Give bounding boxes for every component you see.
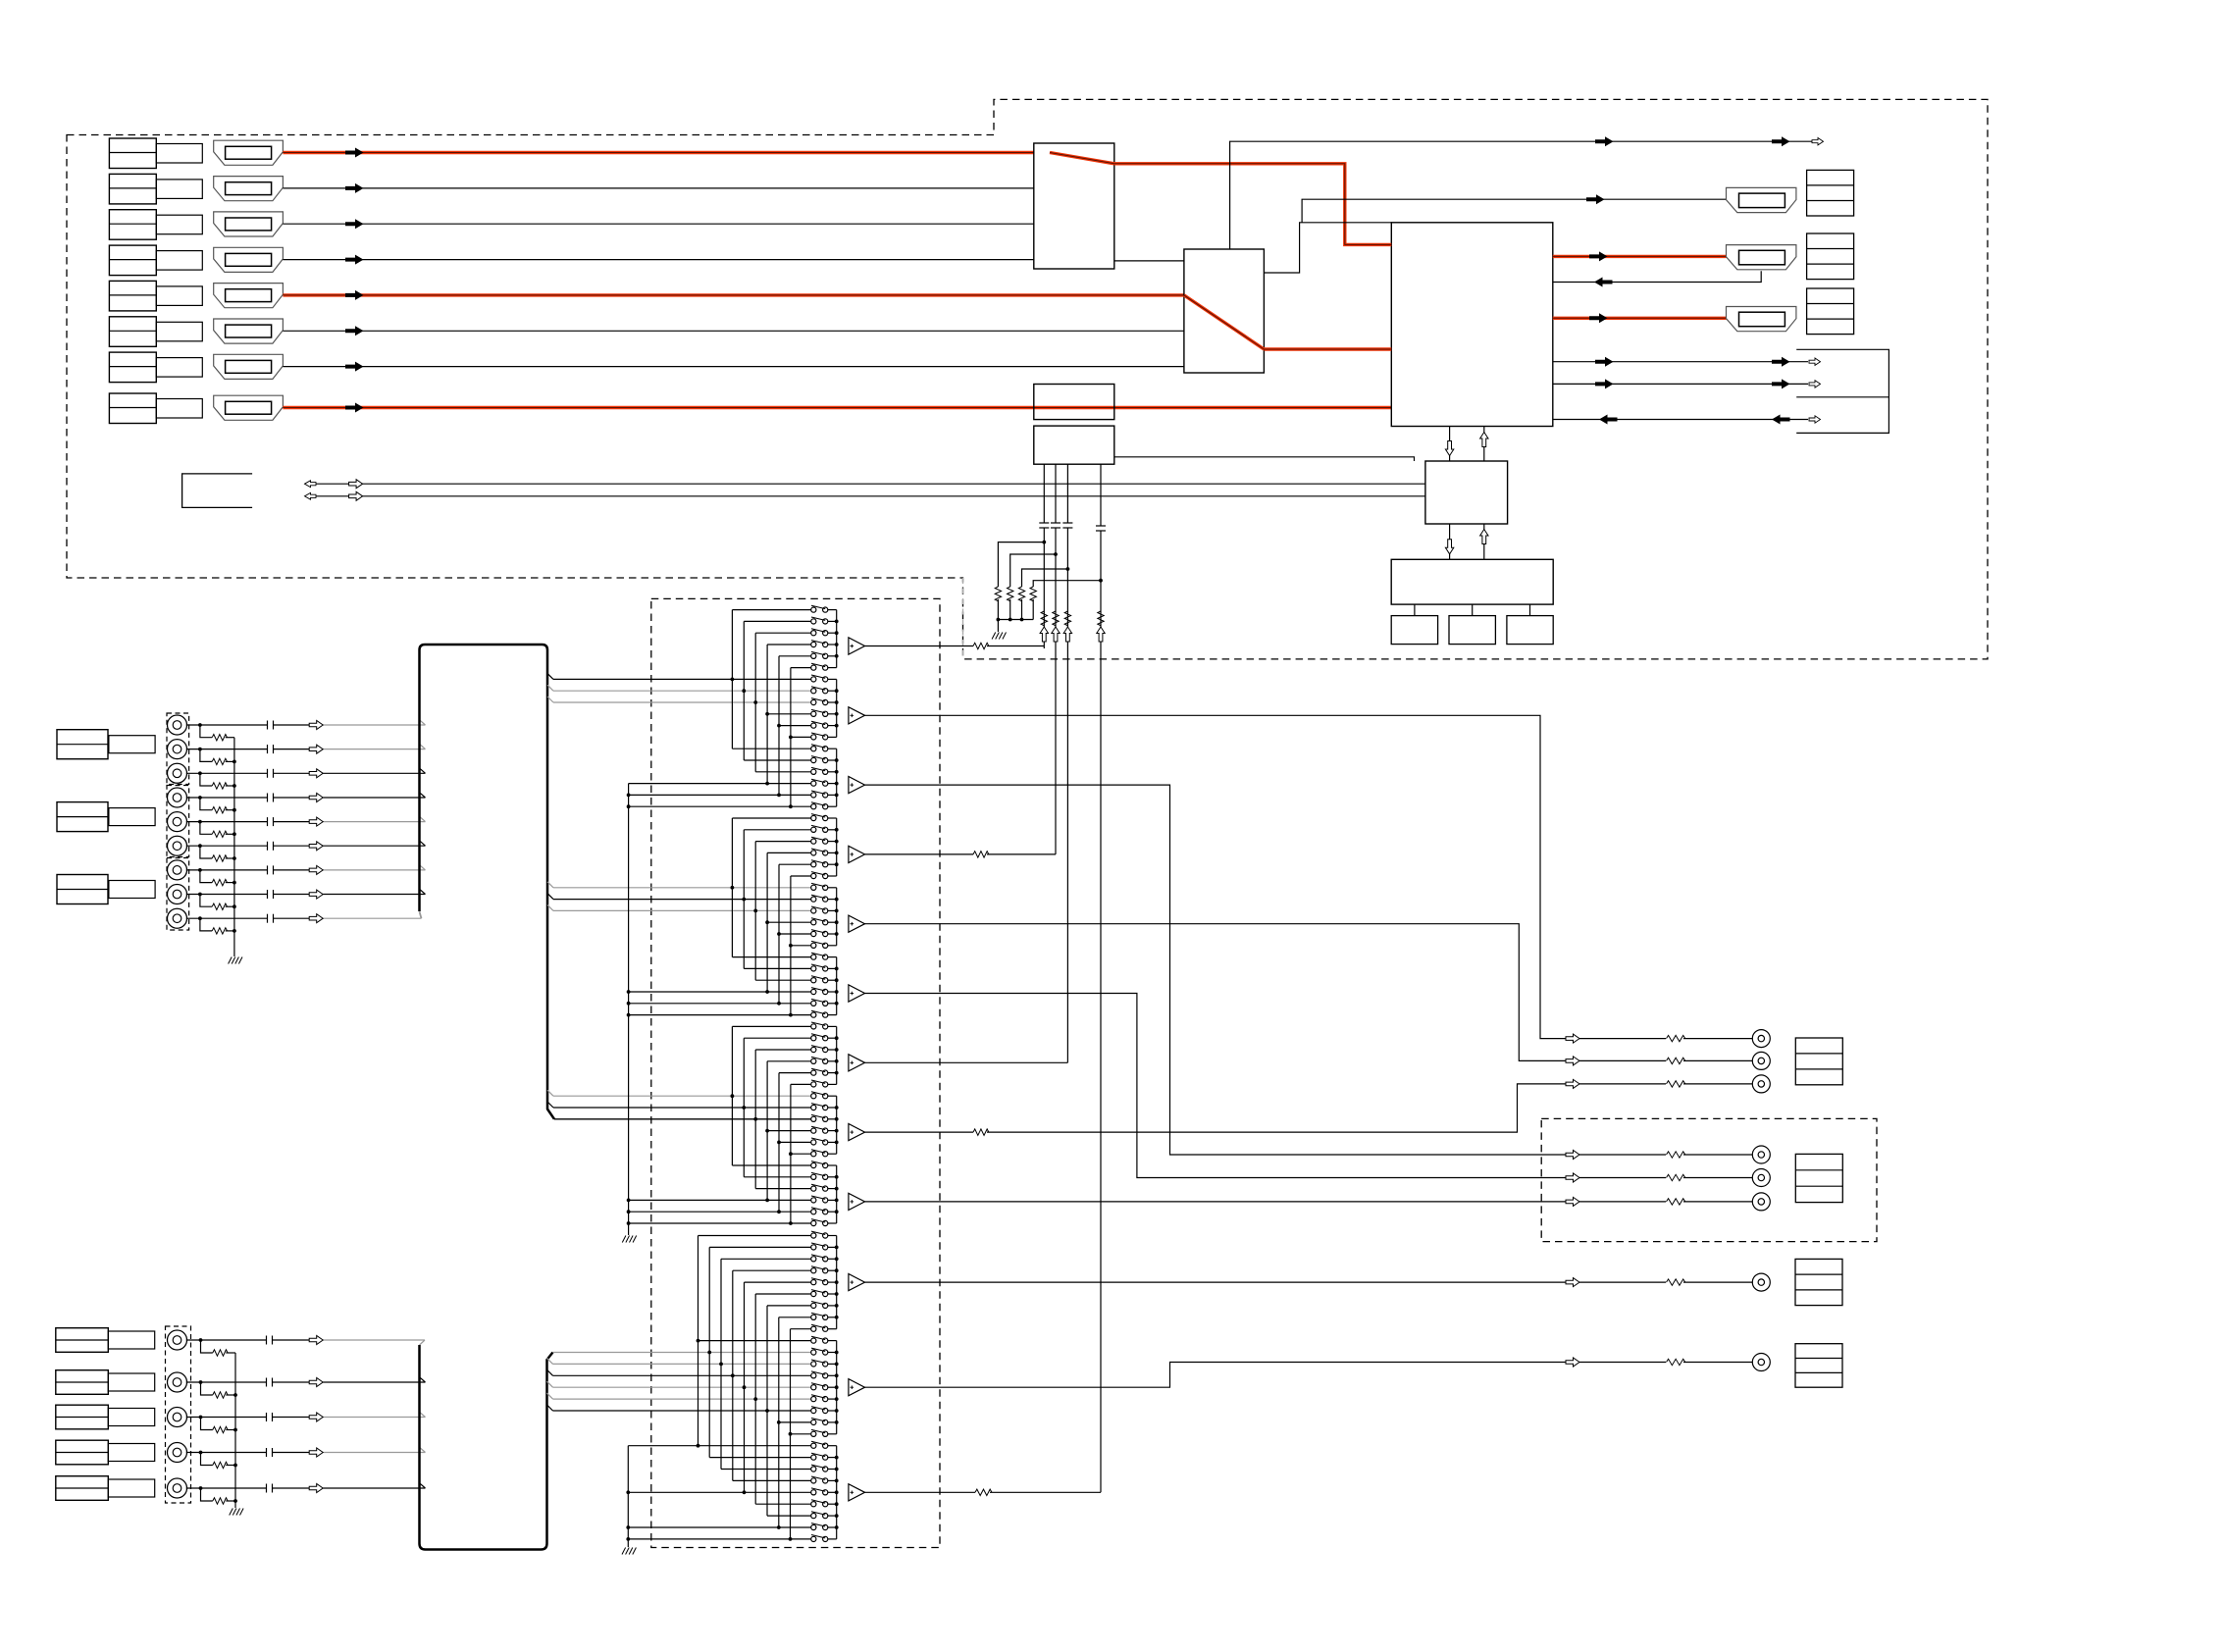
wire bank2 row10 <box>767 921 811 923</box>
memory box U10 <box>1507 616 1553 645</box>
HDMI input 5 label box <box>109 281 156 311</box>
selector bank3 bus line V5 <box>778 1073 780 1213</box>
analog input label box 10 <box>56 1328 109 1353</box>
switch SW-L9 <box>811 1326 816 1331</box>
HDMI input 1 sub label box <box>156 144 202 164</box>
wire lower row12 <box>719 1363 723 1367</box>
arrow on out-2 wire <box>1589 251 1608 261</box>
single out 1 terminal box <box>1795 1259 1842 1305</box>
switch SW-U13 <box>811 747 816 751</box>
switch SW-L19 <box>811 1443 816 1448</box>
right arrow on control bus <box>349 491 363 500</box>
HDMI input connector J5 <box>214 284 284 308</box>
series resistor on zone2 out 2 <box>1667 1174 1685 1180</box>
HDMI input 6 label box <box>109 317 156 347</box>
switch SW-L27 <box>811 1536 816 1541</box>
switch SW-U51 <box>811 1186 816 1191</box>
arrow on zone out 3 <box>1566 1079 1579 1088</box>
wire bank3 row11 <box>779 1141 811 1143</box>
wire lower row20 <box>709 1457 811 1459</box>
HDMI input connector J1 <box>214 140 284 165</box>
coupling capacitor AIN5 <box>267 817 269 826</box>
wire lower harness to matrix row L13 <box>547 1381 553 1387</box>
switch SW-U53 <box>811 1210 816 1214</box>
switch SW-L3 <box>811 1257 816 1262</box>
switch SW-U45 <box>811 1116 816 1121</box>
wire U2 top to HDMI monitor out (L-shape) <box>1230 141 1812 249</box>
RCA jack AIN14 <box>168 1478 187 1498</box>
resistor on line B <box>1053 611 1059 626</box>
wire buffer A9 to zone2 RCA out 3 <box>865 1201 1567 1203</box>
switch SW-U39 <box>811 1047 816 1052</box>
wire lower row24 <box>755 1503 811 1505</box>
lower selector bus line LV2 <box>708 1247 710 1457</box>
wire AIN11 to trunk <box>273 1381 310 1383</box>
wire bank3 row15 <box>755 1188 811 1190</box>
wire lower row11 <box>707 1351 711 1355</box>
wire lower row22 <box>733 1479 811 1481</box>
wire harness to matrix row 8 <box>547 697 553 702</box>
audio link line D from U4 <box>1100 464 1102 526</box>
RCA jack AIN8 <box>168 885 187 904</box>
zone2 out terminal box <box>1795 1154 1842 1202</box>
wire bank1 row8 <box>742 689 746 693</box>
wire harness to matrix row 24 <box>547 882 553 888</box>
memory box U8 <box>1391 616 1437 645</box>
left arrow on control bus <box>305 481 317 488</box>
wire lower row17 <box>779 1421 811 1423</box>
switch SW-L8 <box>811 1315 816 1319</box>
wire AIN13 to coupling cap <box>186 1452 267 1454</box>
coupling capacitor AIN2 <box>267 745 269 753</box>
HDMI input 4 label box <box>109 245 156 276</box>
red wire U2 to U5 <box>1264 347 1391 350</box>
up arrow on line A <box>1040 627 1048 642</box>
input trunk harness (upper) <box>425 645 554 1119</box>
wire HDMI3 signal <box>283 223 1033 225</box>
single out 2 terminal box <box>1795 1344 1842 1388</box>
switch SW-U49 <box>811 1162 816 1167</box>
dashed enclosure: multi-zone audio output group <box>1541 1118 1877 1241</box>
RCA jack AIN10 <box>168 1330 187 1350</box>
analog input label box 11 <box>56 1370 109 1395</box>
series resistor on single out 2 <box>1667 1359 1685 1365</box>
analog input label box 2 <box>57 802 108 832</box>
wire buffer AL3 to HDMI audio link D <box>865 1491 976 1493</box>
buffer amp A9 <box>849 1193 865 1210</box>
switch SW-U18 <box>811 804 816 809</box>
HDMI input 3 label box <box>109 210 156 240</box>
wire bank2 row12 <box>791 945 811 947</box>
switch SW-U28 <box>811 920 816 925</box>
coupling capacitor AIN10 <box>266 1336 268 1345</box>
wire bank2 row4 <box>767 852 811 853</box>
pull-down resistor R1 network <box>998 542 1044 587</box>
termination resistor AIN14 <box>201 1488 213 1501</box>
arrow on AIN10 wire <box>309 1336 323 1345</box>
HDMI input 2 sub label box <box>156 180 202 199</box>
analog input ground bus <box>233 738 235 956</box>
pull-down resistor R4 <box>1033 581 1101 587</box>
aux connector bracket <box>1796 349 1889 433</box>
wire bank2 row6 <box>791 875 811 877</box>
arrow on AIN2 wire <box>309 745 323 753</box>
arrows on aux wire <box>1599 415 1618 425</box>
buffer amp A7 <box>849 1055 865 1071</box>
stub U7-U9 <box>1472 604 1474 616</box>
selector bank3 bus line V3 <box>754 1050 756 1189</box>
HDMI input 6 sub label box <box>156 322 202 341</box>
switch SW-U11 <box>811 723 816 728</box>
wire bank2 row18 from ground trunk <box>629 1014 811 1016</box>
ground of selector trunk <box>622 1236 626 1243</box>
stub U7-U10 <box>1529 604 1531 616</box>
wire bank1 row4 <box>767 644 811 645</box>
lower selector bus line LV6 <box>754 1294 756 1504</box>
wire bank2 row5 <box>779 863 811 865</box>
arrow on AIN5 wire <box>309 817 323 826</box>
switch SW-U54 <box>811 1220 816 1225</box>
wire AIN4 to coupling cap <box>186 797 268 799</box>
switch SW-U3 <box>811 631 816 636</box>
control bus wire y505 <box>316 495 1425 497</box>
arrow on AIN7 wire <box>309 865 323 874</box>
resistor on line D <box>1098 611 1104 626</box>
wire bank2 row14 <box>744 967 810 969</box>
analog input sub label box 2 <box>109 808 155 826</box>
collector bus bank2 group1 <box>836 818 838 876</box>
wire single out 1 <box>1579 1281 1666 1283</box>
wire harness to matrix row 7 <box>547 685 553 691</box>
HDMI input 7 label box <box>109 352 156 383</box>
switch SW-U44 <box>811 1105 816 1110</box>
HDMI input connector J3 <box>214 212 284 236</box>
selector bank2 bus line V5 <box>778 864 780 1004</box>
lower selector bus line LV8 <box>778 1317 780 1527</box>
buffer amp AL1 <box>849 1274 865 1291</box>
termination resistor AIN3 <box>200 773 212 786</box>
arrow on HDMI1 wire <box>345 148 364 158</box>
red wire U5 to HDMI out 3 <box>1553 317 1727 320</box>
wire U1 to U2 link <box>1114 260 1184 262</box>
switch SW-U6 <box>811 665 816 670</box>
collector bus bank3 group1 <box>836 1026 838 1084</box>
switch SW-U32 <box>811 966 816 971</box>
ground of pull-down bus <box>997 620 999 633</box>
buffer amp A6 <box>849 985 865 1002</box>
main HDMI receiver box U5 <box>1391 223 1553 427</box>
wire AIN8 to coupling cap <box>186 894 268 896</box>
termination resistor AIN6 <box>200 846 212 858</box>
selector bank1 bus line V3 <box>754 633 756 772</box>
switch SW-U16 <box>811 781 816 786</box>
capacitor on line B <box>1051 522 1061 524</box>
wire lower row14 <box>743 1385 747 1389</box>
wire buffer A3 to zone2 RCA out 1 <box>865 785 1567 1155</box>
wire AIN12 to trunk <box>273 1417 310 1419</box>
switch SW-L23 <box>811 1490 816 1495</box>
wire lower row1 <box>699 1235 811 1237</box>
termination resistor AIN9 <box>200 918 212 931</box>
wire lower harness to matrix row L12 <box>547 1369 553 1375</box>
pull-down common bus <box>997 599 999 620</box>
series resistor on zone out 3 <box>1667 1081 1685 1087</box>
switch SW-L4 <box>811 1268 816 1273</box>
wire lower row3 <box>721 1258 811 1260</box>
dashed group box: analog inputs 1-3 <box>167 713 189 785</box>
arrow on AIN8 wire <box>309 890 323 899</box>
analog input label box 13 <box>56 1440 109 1465</box>
wire HDMI5 signal <box>283 293 1184 296</box>
wire buffer A8 to zone RCA out 3 <box>865 1131 974 1133</box>
wire lower row9 <box>791 1328 811 1330</box>
switch SW-U31 <box>811 955 816 959</box>
series resistor on zone2 out 1 <box>1667 1152 1685 1158</box>
arrow on AIN6 wire <box>309 842 323 851</box>
DSP box U7 <box>1391 559 1553 604</box>
wire U4 to U6 <box>1114 457 1415 461</box>
RCA output jack zone2 out 1 <box>1752 1146 1770 1163</box>
selector bank2 bus line V6 <box>790 876 792 1015</box>
HDMI input 3 sub label box <box>156 215 202 234</box>
wire lower row4 <box>733 1269 811 1271</box>
stub U7-U8 <box>1414 604 1416 616</box>
arrow on single out 2 <box>1566 1358 1579 1367</box>
HDMI input 4 sub label box <box>156 251 202 271</box>
wire bank3 row6 <box>791 1083 811 1085</box>
wire zone out 3 <box>1579 1083 1666 1085</box>
switch SW-U19 <box>811 815 816 820</box>
arrow on AIN3 wire <box>309 769 323 778</box>
wire AIN1 to trunk <box>274 724 310 726</box>
wire lower row15 <box>753 1397 757 1401</box>
arrow on AIN14 wire <box>309 1484 323 1493</box>
coupling capacitor AIN8 <box>267 890 269 899</box>
wire buffer A6 to zone2 RCA out 2 <box>865 994 1567 1178</box>
switch SW-U2 <box>811 619 816 624</box>
wire bank1 row1 <box>732 609 810 611</box>
switch SW-L5 <box>811 1280 816 1285</box>
wire AIN8 to trunk <box>274 894 310 896</box>
wire bank1 row17 from ground trunk <box>629 794 811 796</box>
bus U6-U7 down <box>1449 524 1451 559</box>
resistor on line C <box>1064 611 1070 626</box>
wire lower row26 from ground trunk 2 <box>628 1526 810 1528</box>
arrow on zone2 out 3 <box>1566 1197 1579 1206</box>
selector bank2 bus line V3 <box>754 842 756 981</box>
wire AIN9 to coupling cap <box>186 917 268 919</box>
switch SW-L24 <box>811 1502 816 1507</box>
switch SW-U34 <box>811 989 816 994</box>
wire AIN2 to trunk <box>274 749 310 750</box>
wire AIN7 to coupling cap <box>186 869 268 871</box>
wire HDMI8 signal <box>283 406 1391 409</box>
wire bank3 row8 <box>742 1106 746 1110</box>
wire bank3 row9 <box>753 1117 757 1121</box>
coupling capacitor AIN6 <box>267 842 269 851</box>
wire lower harness to matrix row L10 <box>553 1352 811 1354</box>
lower selector bus line LV3 <box>720 1259 722 1469</box>
HDMI input 5 sub label box <box>156 286 202 306</box>
red selected path inside U1 <box>1050 153 1114 164</box>
analog input label box 14 <box>56 1476 109 1501</box>
collector bus lower group1 <box>836 1236 838 1329</box>
arrow on zone out 2 <box>1566 1057 1579 1065</box>
switch SW-L7 <box>811 1303 816 1308</box>
wire bank3 row4 <box>767 1060 811 1062</box>
termination resistor AIN5 <box>200 822 212 835</box>
left arrow on control bus <box>305 492 317 499</box>
wire harness to matrix row 43 <box>547 1102 553 1108</box>
switch SW-U37 <box>811 1024 816 1029</box>
analog input label box 3 <box>57 875 108 904</box>
wire bank1 row9 <box>753 700 757 704</box>
red selected path inside U2 <box>1184 295 1265 349</box>
selector bank2 bus line V4 <box>766 852 768 992</box>
wire lower harness to matrix row L11 <box>547 1358 553 1364</box>
arrow on HDMI8 wire <box>345 403 364 413</box>
HDMI repeater box U3 on input-8 line <box>1034 385 1114 420</box>
switch SW-U22 <box>811 851 816 855</box>
RCA output jack single out 2 <box>1752 1354 1770 1371</box>
lower selector bus line LV4 <box>732 1270 734 1480</box>
wire bank1 row3 <box>755 632 811 634</box>
switch SW-L15 <box>811 1397 816 1402</box>
buffer amp A3 <box>849 777 865 794</box>
wire bank3 row13 <box>732 1164 810 1166</box>
wire U5 aux port y427 <box>1553 419 1808 421</box>
capacitor on line A <box>1039 522 1049 524</box>
HDMI input 7 sub label box <box>156 358 202 378</box>
wire lower row23 from ground trunk 2 <box>628 1491 810 1493</box>
switch SW-L11 <box>811 1350 816 1355</box>
wire lower harness to matrix row L15 <box>547 1405 553 1411</box>
aux bracket mid line <box>1796 396 1889 398</box>
wire zone out 2 <box>1579 1059 1666 1061</box>
selector bank1 bus line V2 <box>743 621 745 760</box>
audio link line A from U4 <box>1043 464 1045 523</box>
wire buffer A7 to HDMI audio link C <box>865 1061 1068 1063</box>
audio return box U4 <box>1034 426 1114 464</box>
RCA jack AIN13 <box>168 1443 187 1463</box>
RCA output jack single out 1 <box>1752 1273 1770 1291</box>
wire AIN6 to coupling cap <box>186 845 268 847</box>
switch SW-U4 <box>811 642 816 646</box>
switch SW-U24 <box>811 873 816 878</box>
RCA output jack zone out 1 <box>1752 1030 1770 1048</box>
switch SW-U46 <box>811 1128 816 1133</box>
wire bank1 row13 <box>732 748 810 749</box>
switch SW-U10 <box>811 711 816 716</box>
arrow on HDMI2 wire <box>345 183 364 193</box>
wire lower row8 <box>779 1316 811 1318</box>
coupling capacitor AIN4 <box>267 794 269 802</box>
wire U5 aux port y391 <box>1553 383 1808 385</box>
wire bank1 row11 <box>779 725 811 727</box>
termination resistor AIN8 <box>200 895 212 907</box>
wire single out 2 <box>1579 1362 1666 1364</box>
arrows on monitor-out top wire <box>1595 136 1614 146</box>
wire zone2 out 2 <box>1579 1177 1666 1179</box>
lower selector bus line LV1 <box>698 1236 699 1446</box>
series resistor on zone2 out 3 <box>1667 1199 1685 1205</box>
arrow on out-3 wire <box>1589 313 1608 323</box>
lower selector bus line LV5 <box>744 1282 746 1492</box>
HDMI output connector CN1 <box>1727 187 1796 212</box>
capacitor on line D <box>1096 525 1106 527</box>
wire bank3 row3 <box>755 1049 811 1051</box>
switch SW-U29 <box>811 931 816 936</box>
front control connector bracket <box>182 474 253 508</box>
wire zone out 1 <box>1579 1038 1666 1040</box>
wire harness to matrix row 6 <box>547 673 553 679</box>
wire bank3 row17 from ground trunk <box>629 1211 811 1213</box>
wire bank2 row16 from ground trunk <box>629 991 811 993</box>
pull-down resistor R3 <box>1022 569 1068 587</box>
analog input 2 ground bus <box>234 1353 236 1508</box>
wire HDMI1 signal <box>283 151 1033 154</box>
switch SW-L14 <box>811 1385 816 1390</box>
wire bank2 row9 <box>753 909 757 913</box>
selector bank3 bus line V4 <box>766 1061 768 1201</box>
RCA jack AIN3 <box>168 763 187 783</box>
switch SW-L13 <box>811 1373 816 1378</box>
wire AIN10 to trunk <box>273 1339 310 1341</box>
wire zone2 out 1 <box>1579 1154 1666 1156</box>
coupling capacitor AIN1 <box>267 721 269 730</box>
analog input sub label box 12 <box>108 1409 154 1426</box>
wire bank1 row16 from ground trunk <box>629 783 811 785</box>
wire bank1 row14 <box>744 759 810 761</box>
RCA jack AIN4 <box>168 788 187 807</box>
coupling capacitor AIN12 <box>266 1413 268 1421</box>
collector bus bank2 group2 <box>836 888 838 946</box>
coupling capacitor AIN11 <box>266 1378 268 1387</box>
wire lower row5 <box>745 1281 811 1283</box>
termination resistor AIN11 <box>201 1382 213 1395</box>
arrow on HDMI5 wire <box>345 290 364 300</box>
switch SW-U50 <box>811 1174 816 1179</box>
wire HDMI7 signal <box>283 366 1184 368</box>
RCA output jack zone out 2 <box>1752 1052 1770 1069</box>
termination resistor AIN1 <box>200 725 212 738</box>
switch SW-U21 <box>811 839 816 844</box>
gray dashed segment at right edge of HDMI-IN zone <box>962 578 964 659</box>
audio link line B from U4 <box>1055 464 1057 523</box>
HDMI input 8 sub label box <box>156 399 202 419</box>
wire lower row19 from ground trunk 2 <box>628 1445 810 1447</box>
selector bank3 bus line V1 <box>731 1026 733 1165</box>
switch SW-L25 <box>811 1514 816 1519</box>
wire AIN14 to trunk <box>273 1487 310 1489</box>
wire AIN4 to trunk <box>274 797 310 799</box>
switch SW-U33 <box>811 978 816 983</box>
selector bank1 bus line V6 <box>790 668 792 807</box>
wire bank3 row12 <box>791 1153 811 1155</box>
wire lower row6 <box>755 1293 811 1295</box>
RCA jack AIN12 <box>168 1408 187 1427</box>
wire bank3 row7 <box>731 1094 735 1098</box>
RCA output jack zone2 out 3 <box>1752 1193 1770 1211</box>
RCA jack AIN11 <box>168 1372 187 1392</box>
selector bank1 bus line V4 <box>766 645 768 784</box>
ground of input bus 2 <box>230 1509 233 1516</box>
ground trunk 2 of lower selector <box>627 1446 629 1547</box>
wire lower row10 <box>699 1340 811 1342</box>
wire AIN5 to coupling cap <box>186 821 268 823</box>
switch SW-U14 <box>811 757 816 762</box>
resistor on line A <box>1041 611 1047 626</box>
